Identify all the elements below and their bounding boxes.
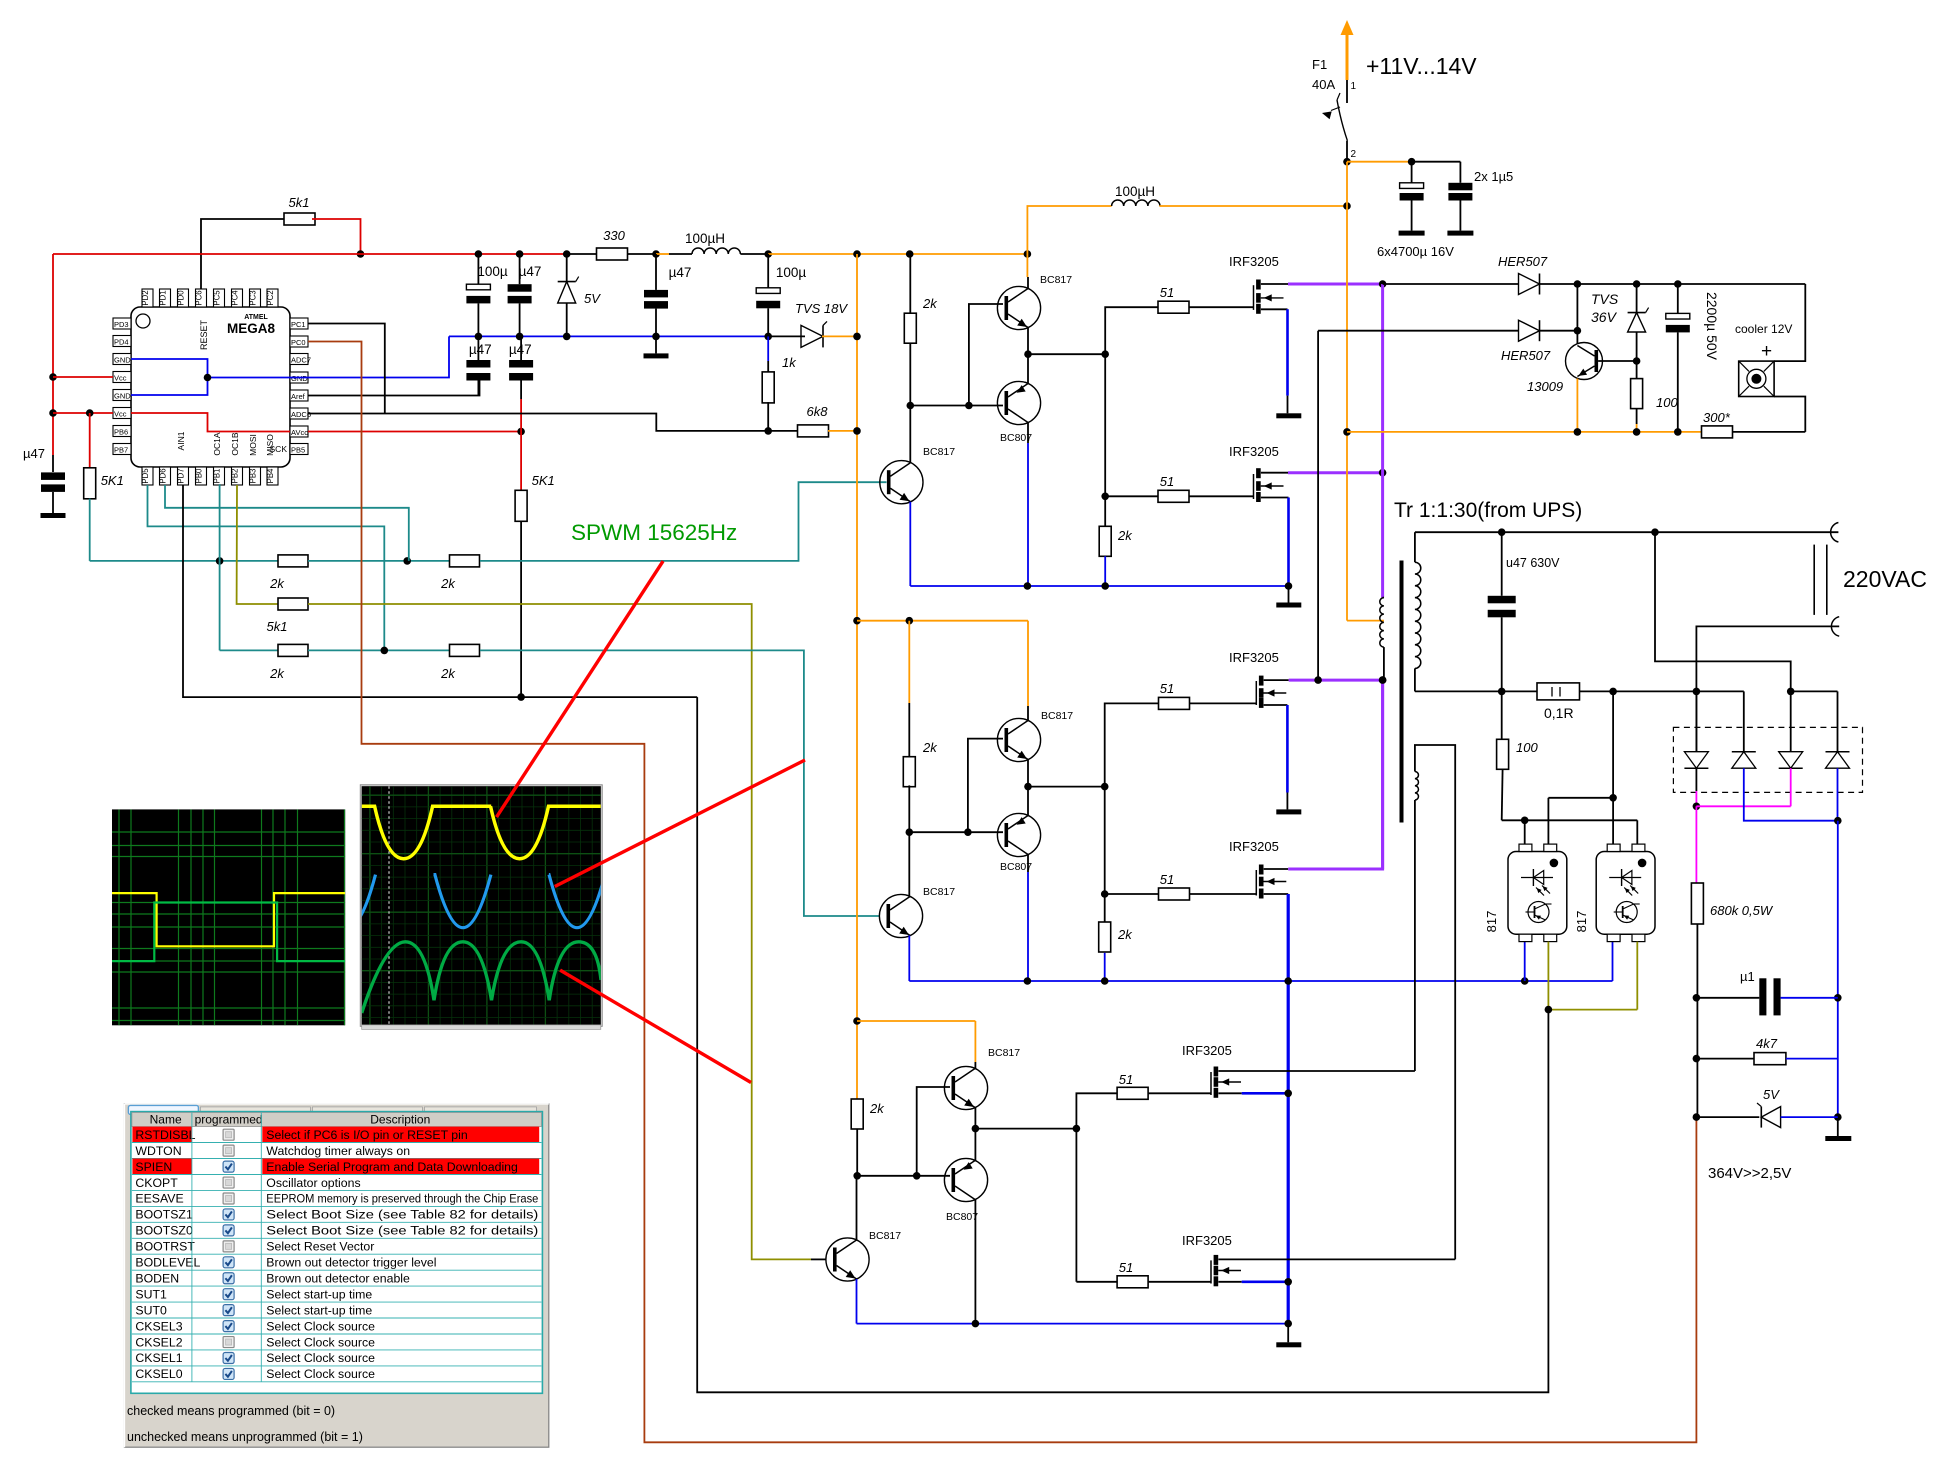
junction primary bottom — [1379, 676, 1387, 684]
wire Q5 collector (blue) — [1027, 855, 1029, 873]
svg-text:CKOPT: CKOPT — [135, 1176, 178, 1190]
junction row C PD5 — [381, 647, 389, 655]
pin PD2 (top) — [142, 289, 153, 307]
svg-text:MOSI: MOSI — [248, 434, 258, 456]
svg-text:ATMEL: ATMEL — [244, 314, 268, 321]
svg-text:PB1: PB1 — [213, 469, 222, 484]
svg-text:Enable Serial Program and Data: Enable Serial Program and Data Downloadi… — [266, 1160, 518, 1174]
svg-text:Brown out detector enable: Brown out detector enable — [266, 1271, 410, 1285]
svg-text:300*: 300* — [1703, 410, 1731, 425]
svg-text:PC6: PC6 — [195, 290, 204, 305]
pin AVcc (right) — [290, 426, 308, 437]
capacitor C7 100u (electrolytic) — [767, 254, 769, 288]
svg-text:Select start-up time: Select start-up time — [266, 1287, 372, 1301]
trace green rectified sine — [362, 942, 601, 1013]
svg-text:2k: 2k — [922, 296, 938, 311]
junction emitters stage2 — [1024, 783, 1032, 791]
resistor R13 51 — [1158, 301, 1189, 313]
resistor R22 51 — [1117, 1276, 1148, 1288]
svg-text:2k: 2k — [869, 1101, 885, 1116]
pin PB1 (bottom) — [214, 467, 225, 485]
pin ADC6 (right) — [290, 408, 308, 419]
svg-text:BC817: BC817 — [1040, 274, 1072, 286]
resistor R7 2k — [278, 555, 308, 567]
svg-text:SCK: SCK — [270, 444, 288, 454]
junction AC1 — [1787, 688, 1795, 696]
svg-text:PD2: PD2 — [141, 290, 150, 305]
svg-text:SPWM 15625Hz: SPWM 15625Hz — [571, 520, 737, 545]
pin ADC7 (right) — [290, 354, 308, 365]
wire feedback top to stage3 M6 — [1415, 745, 1455, 1259]
wire rail black segment — [567, 253, 597, 255]
wire Q8 collector — [974, 1200, 976, 1324]
resistor R18 51 — [1159, 888, 1190, 900]
trace blue SPWM — [320, 875, 664, 928]
svg-text:51: 51 — [1160, 681, 1174, 696]
pin PB2 (bottom) — [232, 467, 243, 485]
svg-text:BOOTSZ0: BOOTSZ0 — [135, 1224, 193, 1238]
junction 12V rail — [1343, 202, 1351, 210]
pin GND (left) — [113, 390, 131, 401]
svg-text:2: 2 — [1351, 149, 1357, 160]
svg-text:Watchdog timer always on: Watchdog timer always on — [266, 1144, 410, 1158]
svg-text:IRF3205: IRF3205 — [1229, 839, 1279, 854]
trace yellow square wave — [112, 893, 345, 946]
wire secondary top — [1414, 532, 1416, 562]
transistor Q8 BC807 — [944, 1158, 987, 1201]
wire row B olive to stage3 — [308, 604, 811, 1259]
svg-text:Select start-up time: Select start-up time — [266, 1303, 372, 1317]
junction fuse out — [1343, 158, 1351, 166]
svg-text:CKSEL3: CKSEL3 — [135, 1319, 182, 1333]
svg-text:programmed: programmed — [195, 1113, 263, 1127]
svg-text:100µH: 100µH — [1115, 184, 1155, 199]
junction purple 680 — [1379, 676, 1387, 684]
svg-text:4k7: 4k7 — [1756, 1036, 1778, 1051]
pin PD3 (left) — [113, 318, 131, 329]
wire M6 source (blue) — [1218, 1281, 1241, 1283]
wire 100 to opto row — [1502, 819, 1638, 821]
svg-text:WDTON: WDTON — [135, 1144, 181, 1158]
wire M5 source (blue) — [1218, 1092, 1241, 1094]
plug symbol — [1813, 545, 1815, 615]
ground — [1276, 413, 1301, 418]
pin PD0 (top) — [178, 289, 189, 307]
wire Q7 emitter — [974, 1108, 976, 1129]
svg-text:100µ: 100µ — [776, 265, 807, 280]
resistor R3 5K1 — [84, 468, 96, 499]
svg-text:2k: 2k — [269, 666, 285, 681]
wire stage3 supply (orange) — [857, 1020, 975, 1022]
pin PD6 (bottom) — [160, 467, 171, 485]
junction GND internal — [204, 374, 212, 382]
svg-text:2k: 2k — [440, 576, 456, 591]
resistor R16 2k — [903, 757, 915, 787]
wire Q1 emitter to node — [1027, 328, 1029, 355]
pin PC2 (top) — [267, 289, 278, 307]
svg-text:CKSEL2: CKSEL2 — [135, 1335, 182, 1349]
svg-text:6k8: 6k8 — [807, 404, 829, 419]
svg-text:51: 51 — [1119, 1072, 1133, 1087]
svg-text:5k1: 5k1 — [289, 195, 310, 210]
resistor R12 2k — [904, 313, 916, 343]
transistor Q7 BC817 — [944, 1066, 987, 1109]
wire 6k8 out (orange) — [828, 430, 857, 432]
svg-text:1k: 1k — [782, 355, 797, 370]
junction rail 656 — [652, 250, 660, 258]
wire PD7 — [183, 485, 697, 697]
svg-text:µ47: µ47 — [519, 264, 542, 279]
svg-text:2k: 2k — [440, 666, 456, 681]
svg-text:PB2: PB2 — [231, 469, 240, 484]
svg-text:BC807: BC807 — [946, 1211, 978, 1223]
junction opto feedback — [1545, 1006, 1553, 1014]
svg-text:IRF3205: IRF3205 — [1229, 254, 1279, 269]
svg-text:HER507: HER507 — [1501, 348, 1551, 363]
wire Q7 collector — [974, 1062, 976, 1069]
junction Vcc 413 — [49, 409, 57, 417]
wire Q9 emitter (blue) — [856, 1279, 858, 1324]
svg-text:6x4700µ 16V: 6x4700µ 16V — [1377, 244, 1454, 259]
ground — [1825, 1136, 1851, 1141]
wire Q3 collector — [909, 406, 911, 463]
zener D5 TVS 36V — [1636, 284, 1638, 313]
svg-text:Oscillator options: Oscillator options — [266, 1176, 360, 1190]
zener D10 5V — [1696, 1116, 1759, 1118]
wire Q1 collector (orange from rail) — [1026, 254, 1028, 277]
fuse row CKSEL1 — [132, 1365, 542, 1367]
wire to gate node — [1028, 353, 1105, 355]
resistor R-reset 5k1 — [284, 213, 315, 225]
thyristor/diode bridge D6 — [1695, 691, 1697, 751]
wire to transformer center tap (orange) — [1347, 620, 1384, 622]
svg-text:ADC6: ADC6 — [291, 410, 311, 419]
resistor R24 300* — [1702, 426, 1733, 438]
pin GND (right) — [290, 372, 308, 383]
svg-text:PD3: PD3 — [114, 320, 129, 329]
wire M5 drain to transformer winding — [1218, 1070, 1415, 1072]
wire primary bottom — [1383, 647, 1385, 680]
diode D2 TVS 18V — [801, 325, 823, 347]
fuse row SPIEN — [132, 1159, 192, 1175]
diode D4 HER507 — [1519, 320, 1540, 341]
svg-text:MEGA8: MEGA8 — [227, 321, 276, 336]
junction row A PD6 — [403, 557, 411, 565]
svg-text:PB0: PB0 — [195, 468, 204, 483]
wire TVS out (orange) — [822, 335, 857, 337]
svg-text:817: 817 — [1484, 911, 1499, 933]
optocoupler U2 817 — [1508, 852, 1567, 935]
transistor Q2 BC807 — [997, 381, 1040, 424]
fuse table panel — [131, 1112, 543, 1394]
thyristor/diode bridge D8 — [1790, 691, 1792, 751]
resistor R11 2k — [450, 644, 480, 656]
wire row A to stage1 base (teal) — [480, 482, 887, 561]
mosfet M3 IRF3205 — [1255, 681, 1257, 705]
svg-text:u47 630V: u47 630V — [1506, 556, 1560, 570]
wire to 5K1 (red) — [89, 413, 91, 468]
capacitor C4 u47 (lower) — [477, 336, 479, 360]
junction stage1 base node — [907, 402, 915, 410]
fuse row CKOPT — [132, 1189, 542, 1191]
junction rail 768 — [764, 250, 772, 258]
blue sense bus down — [1837, 821, 1839, 1117]
resistor R8 2k — [450, 555, 480, 567]
transistor Q4 BC817 — [997, 718, 1040, 761]
svg-text:PC5: PC5 — [213, 290, 222, 306]
svg-text:2x 1µ5: 2x 1µ5 — [1474, 169, 1513, 184]
wire upper gate 51 row stage3 — [1076, 1093, 1116, 1128]
thyristor/diode bridge D7 — [1743, 691, 1745, 751]
resistor R9 5k1 — [278, 598, 308, 610]
junction gate node stage1 — [1101, 350, 1109, 358]
wire feedback bottom to stage3 M5 — [1414, 800, 1416, 1071]
junction rail 857 — [853, 250, 861, 258]
wire 2k drop stage2 — [908, 621, 910, 703]
capacitor C5 u47 (lower) — [520, 336, 522, 360]
scope cursor dotted line — [388, 786, 390, 1025]
mosfet M2 IRF3205 — [1253, 474, 1255, 499]
svg-text:Select Clock source: Select Clock source — [266, 1319, 375, 1333]
pin PD4 (left) — [113, 336, 131, 347]
orange rail vertical x=857 — [856, 254, 858, 1099]
junction emitters stage3 — [972, 1125, 980, 1133]
svg-text:ADC7: ADC7 — [291, 356, 311, 365]
fuse row BODEN — [132, 1285, 542, 1287]
orange main 12V vertical — [1346, 162, 1348, 621]
wire PC6 reset — [201, 219, 287, 289]
wire 51-2 row — [1105, 495, 1158, 497]
junction stage2 base node — [906, 828, 914, 836]
fuse row RSTDISBL — [132, 1127, 192, 1143]
svg-text:5k1: 5k1 — [267, 619, 288, 634]
svg-text:+11V...14V: +11V...14V — [1366, 53, 1477, 79]
junction rail 1027 — [1024, 250, 1032, 258]
wire secondary top rail — [1415, 531, 1839, 533]
wire M4 drain (purple) — [1264, 868, 1289, 870]
transformer primary winding — [1380, 598, 1384, 648]
fuse row BOOTSZ0 — [132, 1237, 542, 1239]
svg-text:0,1R: 0,1R — [1544, 705, 1574, 721]
wire cooler + side — [1774, 284, 1805, 361]
svg-text:680k 0,5W: 680k 0,5W — [1710, 903, 1774, 918]
wire M2 drain (purple) — [1261, 472, 1288, 474]
oscilloscope screenshot 2 (SPWM waveforms) — [360, 785, 602, 1027]
IC U1 ATmega8 body — [131, 307, 290, 467]
svg-text:PD6: PD6 — [159, 468, 168, 483]
svg-text:IRF3205: IRF3205 — [1229, 444, 1279, 459]
wire L2 to fuse rail (orange) — [1159, 205, 1347, 207]
wire PD7 riser down — [697, 697, 1548, 1392]
resistor R28 100 (sense) — [1501, 691, 1503, 739]
svg-text:PC3: PC3 — [249, 290, 258, 305]
pointer line to green trace (red) — [560, 970, 751, 1082]
wire Q2 emitter up — [1027, 354, 1029, 383]
svg-text:IRF3205: IRF3205 — [1229, 650, 1279, 665]
pin PB0 (bottom) — [196, 467, 207, 485]
wire 0,1R right to optos — [1612, 691, 1614, 797]
svg-text:EESAVE: EESAVE — [135, 1192, 183, 1206]
wire primary top (purple joins) — [1383, 597, 1384, 599]
resistor R20 2k — [851, 1099, 863, 1129]
svg-text:TVS: TVS — [1591, 291, 1619, 307]
svg-text:CKSEL1: CKSEL1 — [135, 1351, 182, 1365]
svg-text:36V: 36V — [1591, 309, 1618, 325]
svg-text:100µ: 100µ — [477, 264, 508, 279]
wire M3 source (blue) — [1264, 704, 1288, 706]
bridge dashed box — [1673, 727, 1862, 792]
junction 13009 col — [1574, 327, 1582, 335]
resistor R15 2k (pulldown) — [1104, 496, 1106, 526]
wire M3 drain (purple) — [1264, 679, 1289, 681]
mosfet M1 IRF3205 — [1253, 285, 1255, 310]
resistor R14 51 — [1158, 490, 1189, 502]
pin GND (left) — [113, 354, 131, 365]
fuse row CKSEL0 — [132, 1381, 542, 1383]
shunt resistor R25 0,1R — [1537, 683, 1580, 700]
transistor Q9 BC817 (driver) — [826, 1238, 869, 1281]
blue rail stage3 — [857, 1323, 1289, 1325]
fuse row EESAVE — [132, 1205, 542, 1207]
resistor R10 2k — [278, 644, 308, 656]
wire 0.1R rail — [1415, 690, 1744, 692]
svg-text:Vcc: Vcc — [114, 374, 127, 383]
wire rail orange after 330 — [656, 253, 669, 255]
transformer secondary winding — [1415, 562, 1421, 668]
wire HER507 row1 — [1383, 283, 1519, 285]
fan cooler 12V — [1739, 361, 1774, 396]
capacitor C12 u1 — [1696, 997, 1759, 999]
connector output 2 — [1831, 617, 1839, 637]
svg-text:2k: 2k — [1117, 927, 1133, 942]
wire PD5 (teal) — [148, 485, 385, 650]
svg-text:Select Boot Size (see Table 82: Select Boot Size (see Table 82 for detai… — [266, 1208, 538, 1222]
junction stage1 — [965, 402, 973, 410]
wire row C to stage2 base (teal) — [480, 650, 879, 916]
capacitor C9 2x1u5 — [1448, 183, 1472, 191]
junction 1k bottom — [764, 427, 772, 435]
svg-text:RSTDISBL: RSTDISBL — [135, 1128, 195, 1142]
wire secondary bottom — [1414, 668, 1416, 691]
ground — [1276, 1342, 1301, 1347]
scope2 bottom strip — [362, 1025, 601, 1030]
svg-text:cooler 12V: cooler 12V — [1735, 322, 1792, 336]
fuse bits dialog window — [124, 1104, 548, 1447]
pin PB7 (left) — [113, 444, 131, 455]
svg-text:PB5: PB5 — [291, 446, 305, 455]
wire PD6 (teal) — [165, 485, 409, 561]
power arrow +11..14V (orange) — [1346, 34, 1349, 80]
svg-text:µ47: µ47 — [469, 342, 492, 357]
capacitor C10 2200u 50V (electrolytic) — [1677, 284, 1679, 313]
fuse row WDTON — [132, 1158, 542, 1160]
svg-text:PB4: PB4 — [266, 468, 275, 483]
wire GND internal (blue) — [131, 359, 208, 395]
wire ADC6 — [308, 414, 768, 431]
junction purple rail — [1379, 280, 1387, 288]
wire PC1 — [308, 324, 385, 414]
ground — [1399, 231, 1425, 236]
capacitor C8 6x4700u 16V (electrolytic) — [1411, 162, 1413, 183]
pin Vcc (left) — [113, 372, 131, 383]
pin PC0 (right) — [290, 336, 308, 347]
wire opto1 pin riser (blue) — [1524, 942, 1526, 981]
capacitor C11 u47 630V — [1501, 532, 1503, 596]
pointer line to yellow trace (red) — [497, 561, 664, 817]
orange aux rail — [1347, 431, 1702, 433]
svg-text:Tr 1:1:30(from UPS): Tr 1:1:30(from UPS) — [1394, 499, 1582, 522]
svg-text:2k: 2k — [1117, 528, 1133, 543]
wire AVcc (red) — [308, 431, 521, 433]
svg-text:IRF3205: IRF3205 — [1182, 1233, 1232, 1248]
svg-text:µ47: µ47 — [509, 342, 532, 357]
svg-text:checked means programmed (bit: checked means programmed (bit = 0) — [127, 1404, 335, 1418]
wire 5K1 to row A (teal) — [89, 499, 91, 561]
mosfet M5 IRF3205 — [1210, 1072, 1212, 1095]
fuse row SUT1 — [132, 1301, 542, 1303]
wire M1 source (blue) — [1261, 308, 1288, 310]
table header — [132, 1113, 542, 1127]
svg-text:PC1: PC1 — [291, 320, 306, 329]
trace green square wave — [112, 903, 345, 962]
fuse row BODLEVEL — [132, 1269, 542, 1271]
svg-text:Select Clock source: Select Clock source — [266, 1351, 375, 1365]
wire AC2 to bridge — [1696, 626, 1839, 751]
junction stage3 — [913, 1172, 921, 1180]
wire lower gate node stage2 — [1104, 787, 1106, 894]
svg-text:EEPROM memory is preserved thr: EEPROM memory is preserved through the C… — [266, 1192, 538, 1206]
thyristor/diode bridge D9 — [1837, 691, 1839, 751]
svg-text:PB7: PB7 — [114, 446, 128, 455]
capacitor C6 u47 mid — [655, 254, 657, 290]
wire lower gate node stage3 — [1075, 1129, 1077, 1282]
optocoupler U3 817 — [1596, 852, 1655, 935]
fuse row BOOTRST — [132, 1253, 542, 1255]
wire 13009 emitter (orange) — [1576, 379, 1578, 432]
fuse row BOOTSZ1 — [132, 1221, 542, 1223]
ground — [1447, 231, 1473, 236]
svg-text:Name: Name — [150, 1113, 182, 1127]
wire Vcc to AVcc internal (red) — [131, 413, 290, 432]
svg-text:HER507: HER507 — [1498, 254, 1548, 269]
svg-text:PD7: PD7 — [177, 468, 186, 483]
wire Q4 emitter — [1027, 760, 1029, 787]
wire M1 drain (purple) — [1261, 283, 1288, 285]
svg-text:AIN1: AIN1 — [176, 431, 186, 450]
svg-text:RESET: RESET — [199, 319, 209, 350]
wire bridge DC+ (magenta) — [1695, 791, 1697, 806]
fuse row CKSEL3 — [132, 1333, 542, 1335]
svg-text:Description: Description — [370, 1113, 430, 1127]
svg-text:GND: GND — [291, 374, 308, 383]
resistor R17 51 — [1159, 697, 1190, 709]
wire 2k drop stage1 (from +5 rail) — [909, 254, 911, 313]
junction gate node stage3 — [1073, 1125, 1081, 1133]
svg-text:2200µ 50V: 2200µ 50V — [1704, 292, 1720, 361]
svg-text:µ47: µ47 — [23, 446, 45, 461]
junction AVcc — [517, 428, 525, 436]
zener D1 5V — [566, 254, 568, 282]
junction src2 — [1284, 1278, 1292, 1286]
transistor Q3 BC817 (driver) — [880, 461, 923, 504]
wire Q3 emitter (blue) — [909, 502, 911, 586]
wire AC1 to bridge — [1655, 532, 1791, 691]
wire Q4 collector — [1027, 706, 1029, 721]
resistor R4 5K1 — [515, 490, 527, 521]
resistor R5 1k — [762, 372, 774, 403]
diode D3 HER507 — [1519, 274, 1540, 295]
fuse row CKSEL2 — [132, 1349, 542, 1351]
